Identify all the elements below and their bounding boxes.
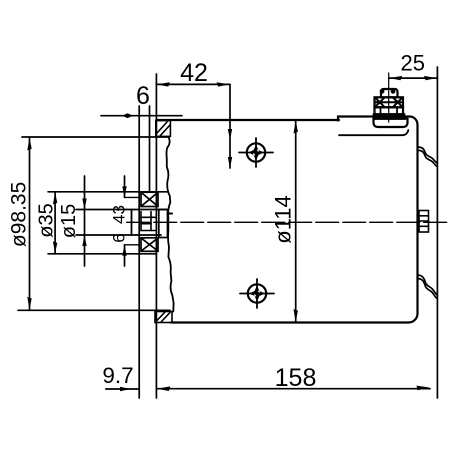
mounting hole target lower bbox=[240, 279, 274, 308]
svg-text:158: 158 bbox=[275, 364, 317, 392]
dimension ø35 top arrow bbox=[53, 192, 57, 204]
dimension 25 right arrow bbox=[424, 76, 437, 80]
svg-text:25: 25 bbox=[401, 51, 425, 76]
shaft shoulder line bbox=[149, 106, 151, 192]
terminal block left tick bbox=[337, 117, 339, 121]
flange top extension line bbox=[22, 136, 169, 138]
bearing face extension line bbox=[138, 106, 140, 398]
terminal stud base flange bbox=[374, 119, 408, 127]
terminal stud thread dots bbox=[380, 90, 395, 94]
dimension ø98.35 bottom arrow bbox=[27, 297, 31, 310]
terminal stud washer bbox=[374, 114, 404, 118]
motor body top edge bbox=[156, 119, 339, 121]
terminal stud nut bbox=[375, 97, 404, 107]
hole center extension line bbox=[229, 84, 231, 168]
dimension 158 right arrow bbox=[417, 386, 431, 391]
extension line 43 lower bbox=[125, 244, 140, 246]
rear boss tab on right edge bbox=[419, 211, 429, 233]
dimension ø15 line bbox=[84, 176, 86, 266]
dimension ø114 bottom arrow bbox=[294, 309, 298, 322]
through-bolt squiggle upper bbox=[418, 147, 438, 167]
terminal block bottom step line bbox=[339, 130, 408, 135]
dimension 42 right arrow bbox=[217, 82, 230, 86]
bearing lower section box bbox=[141, 238, 158, 252]
dimension 6 line upper bbox=[101, 115, 182, 117]
bearing retainer washer bbox=[159, 210, 172, 238]
dimension ø35 line bbox=[54, 192, 56, 254]
dimension 6 tick diamond bbox=[122, 113, 133, 118]
svg-text:6: 6 bbox=[136, 82, 150, 110]
through-bolt squiggle lower bbox=[418, 275, 438, 298]
svg-text:ø98.35: ø98.35 bbox=[8, 182, 31, 247]
shaft thread bore bbox=[141, 212, 156, 231]
terminal stud top cap bbox=[381, 89, 398, 97]
shaft top edge bbox=[76, 209, 168, 211]
dimension 43 upper arrow bbox=[122, 186, 126, 197]
terminal stud nut chamfer marks bbox=[375, 98, 404, 107]
dimension 9.7 arrow bbox=[120, 387, 131, 391]
flange cast edge bbox=[166, 137, 173, 312]
dimension 25 left arrow bbox=[389, 76, 402, 80]
dimension 43 lower segment bbox=[124, 245, 126, 266]
hole center arrow lower bbox=[228, 157, 232, 168]
flange upper hatch box bbox=[156, 121, 171, 137]
dimension 25 line bbox=[389, 77, 438, 79]
flange bottom extension line bbox=[18, 309, 170, 311]
bearing upper section box bbox=[141, 192, 158, 206]
shaft end face bbox=[131, 210, 133, 236]
right extent extension line bbox=[436, 67, 438, 398]
extension line 43 upper bbox=[125, 196, 140, 198]
dimension 43 lower arrow bbox=[122, 245, 126, 256]
dimension ø15 upper arrow bbox=[82, 199, 86, 210]
svg-text:ø114: ø114 bbox=[271, 195, 296, 244]
dimension 158 line bbox=[156, 388, 430, 390]
shaft bottom edge bbox=[76, 234, 161, 236]
dimension ø15 lower arrow bbox=[82, 235, 86, 246]
svg-text:6: 6 bbox=[110, 233, 129, 242]
dimension ø98.35 top arrow bbox=[27, 137, 31, 150]
bearing boss top line bbox=[48, 191, 168, 193]
svg-text:ø15: ø15 bbox=[58, 204, 80, 238]
svg-text:43: 43 bbox=[110, 205, 129, 224]
svg-text:ø35: ø35 bbox=[36, 203, 58, 237]
dimension 158 left arrow bbox=[157, 386, 171, 391]
dimension ø98.35 line bbox=[29, 137, 31, 310]
bearing lower X bbox=[142, 239, 157, 251]
dimension ø114 top arrow bbox=[294, 120, 298, 133]
flange face extension line bbox=[155, 74, 157, 398]
mounting hole target upper bbox=[239, 138, 273, 167]
dimension ø114 line bbox=[295, 120, 297, 323]
hole center arrow upper bbox=[228, 129, 232, 140]
terminal stud lower nut facets bbox=[381, 107, 398, 114]
bearing boss bottom line bbox=[48, 253, 156, 255]
dimension 42 line bbox=[156, 83, 230, 85]
rear cap top edge (terminal block) bbox=[338, 117, 418, 125]
axis center line bbox=[127, 221, 447, 223]
terminal stud center line bbox=[388, 73, 390, 122]
bearing upper X bbox=[142, 193, 157, 206]
dimension 9.7 left arm bbox=[106, 388, 139, 390]
svg-text:9.7: 9.7 bbox=[102, 363, 133, 388]
dimension 43 line upper segment bbox=[124, 176, 126, 197]
dimension 42 left arrow bbox=[157, 82, 170, 86]
flange lower hatch box bbox=[155, 312, 172, 323]
body bottom edge bbox=[171, 321, 409, 323]
terminal stud lower nut bbox=[375, 107, 404, 114]
body right edge bbox=[409, 125, 418, 323]
svg-text:42: 42 bbox=[180, 59, 208, 87]
dimension ø35 bottom arrow bbox=[53, 241, 57, 253]
